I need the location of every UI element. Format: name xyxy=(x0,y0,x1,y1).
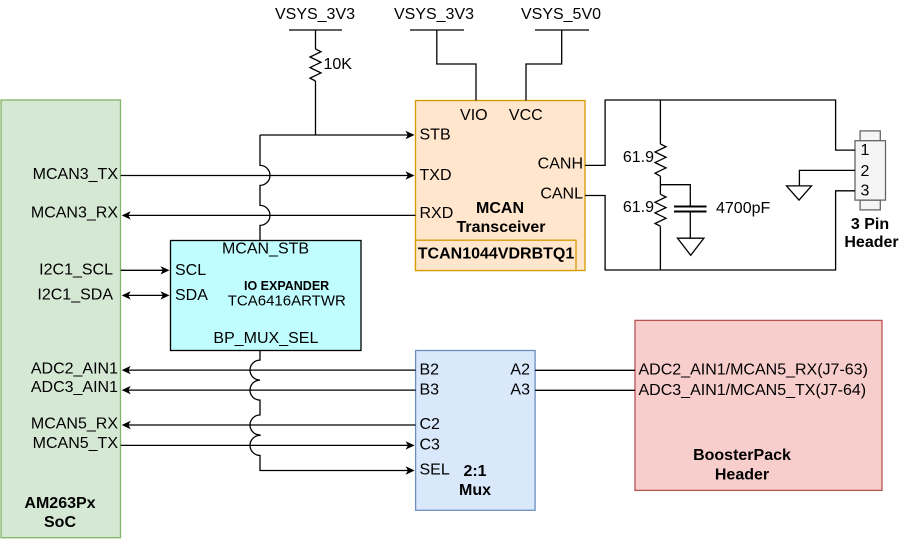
svg-text:VSYS_5V0: VSYS_5V0 xyxy=(521,6,601,23)
svg-text:ADC2_AIN1/MCAN5_RX(J7-63): ADC2_AIN1/MCAN5_RX(J7-63) xyxy=(639,362,868,379)
mux U4 2:1 xyxy=(416,351,535,511)
MCAN transceiver U1 xyxy=(416,101,586,271)
svg-text:I2C1_SDA: I2C1_SDA xyxy=(37,286,113,303)
wire MCAN5_TX to C3 xyxy=(121,441,415,449)
svg-text:BoosterPack: BoosterPack xyxy=(693,447,791,464)
svg-text:3 Pin: 3 Pin xyxy=(851,216,889,233)
wire STB net horizontal xyxy=(260,134,409,136)
svg-text:MCAN: MCAN xyxy=(476,200,524,217)
svg-text:SoC: SoC xyxy=(44,514,76,531)
svg-text:TCA6416ARTWR: TCA6416ARTWR xyxy=(228,292,346,309)
svg-text:TXD: TXD xyxy=(420,167,452,184)
power VSYS_3V3 P1 xyxy=(275,6,355,30)
wire C1 to ground xyxy=(689,212,691,239)
svg-text:MCAN5_RX: MCAN5_RX xyxy=(31,416,118,433)
wire CANH to pin 1 xyxy=(585,100,855,165)
svg-text:SCL: SCL xyxy=(175,262,206,279)
IO expander U2 TCA6416ARTWR xyxy=(171,240,362,350)
svg-text:ADC2_AIN1: ADC2_AIN1 xyxy=(31,361,118,378)
svg-text:STB: STB xyxy=(420,127,451,144)
svg-text:MCAN5_TX: MCAN5_TX xyxy=(33,435,119,452)
svg-text:ADC3_AIN1/MCAN5_TX(J7-64): ADC3_AIN1/MCAN5_TX(J7-64) xyxy=(639,382,867,399)
wire pin 2 to ground xyxy=(799,170,855,186)
svg-text:B3: B3 xyxy=(420,381,440,398)
BoosterPack header J7 xyxy=(635,320,882,490)
wire A2 to BoosterPack xyxy=(535,369,635,371)
wire CANL to pin 3 xyxy=(585,191,855,270)
wire MCAN3_TX to TXD xyxy=(121,171,415,179)
wire R2 to R3 xyxy=(659,176,661,194)
svg-text:Transceiver: Transceiver xyxy=(457,219,546,236)
svg-text:CANH: CANH xyxy=(538,156,583,173)
svg-text:AM263Px: AM263Px xyxy=(24,495,95,512)
svg-text:4700pF: 4700pF xyxy=(716,200,770,217)
svg-text:A2: A2 xyxy=(510,361,530,378)
wire I2C1_SCL to SCL xyxy=(121,266,170,274)
svg-text:C3: C3 xyxy=(420,436,441,453)
wire B3 to ADC3_AIN1 xyxy=(122,386,416,394)
svg-text:VCC: VCC xyxy=(509,107,543,124)
svg-text:2:1: 2:1 xyxy=(463,463,486,480)
svg-text:2: 2 xyxy=(861,163,870,180)
wire I2C1_SDA to SDA bidirectional xyxy=(122,291,170,299)
wire R3 to bottom rail xyxy=(659,226,661,270)
svg-text:Header: Header xyxy=(715,467,769,484)
resistor R3 61.9 xyxy=(623,194,666,226)
svg-text:Header: Header xyxy=(844,234,898,251)
SoC block U3 AM263Px xyxy=(1,100,121,538)
svg-text:RXD: RXD xyxy=(420,205,454,222)
connector J1 label xyxy=(844,216,898,251)
svg-text:B2: B2 xyxy=(420,361,440,378)
svg-text:SDA: SDA xyxy=(175,287,208,304)
capacitor C1 4700pF xyxy=(674,200,770,217)
svg-text:MCAN3_RX: MCAN3_RX xyxy=(31,204,118,221)
ground GND1 xyxy=(678,238,704,255)
resistor R1 10K xyxy=(310,49,352,81)
svg-text:IO EXPANDER: IO EXPANDER xyxy=(244,279,329,293)
svg-text:C2: C2 xyxy=(420,416,441,433)
wire split node to capacitor C1 xyxy=(660,185,690,207)
svg-text:CANL: CANL xyxy=(540,185,583,202)
wire P3 to VCC xyxy=(526,30,562,101)
wire A3 to BoosterPack xyxy=(535,389,635,391)
wire P1 to R1 xyxy=(315,30,317,49)
svg-text:MCAN3_TX: MCAN3_TX xyxy=(33,166,119,183)
svg-text:MCAN_STB: MCAN_STB xyxy=(222,240,309,257)
svg-text:61.9: 61.9 xyxy=(623,199,654,216)
svg-text:I2C1_SCL: I2C1_SCL xyxy=(39,262,113,279)
svg-text:Mux: Mux xyxy=(459,482,491,499)
svg-text:A3: A3 xyxy=(510,381,530,398)
svg-text:1: 1 xyxy=(861,142,870,159)
resistor R2 61.9 xyxy=(623,144,666,176)
svg-text:TCAN1044VDRBTQ1: TCAN1044VDRBTQ1 xyxy=(418,246,575,263)
svg-text:61.9: 61.9 xyxy=(623,149,654,166)
svg-text:VSYS_3V3: VSYS_3V3 xyxy=(394,6,474,23)
wire B2 to ADC2_AIN1 xyxy=(122,366,416,374)
wire BP_MUX_SEL to SEL with hops xyxy=(250,351,409,471)
svg-text:SEL: SEL xyxy=(420,462,450,479)
ground GND2 xyxy=(787,186,812,200)
svg-text:BP_MUX_SEL: BP_MUX_SEL xyxy=(213,330,318,347)
wire RXD to MCAN3_RX xyxy=(122,211,416,219)
svg-text:VIO: VIO xyxy=(460,107,488,124)
wire C2 to MCAN5_RX xyxy=(122,421,416,429)
power VSYS_5V0 P3 xyxy=(521,6,601,30)
power VSYS_3V3 P2 xyxy=(394,6,474,30)
svg-text:3: 3 xyxy=(861,183,870,200)
wire top rail to R2 xyxy=(659,100,661,144)
svg-text:VSYS_3V3: VSYS_3V3 xyxy=(275,6,355,23)
wire R1 to STB net xyxy=(315,81,317,135)
svg-text:ADC3_AIN1: ADC3_AIN1 xyxy=(31,379,118,396)
wire STB net vertical to MCAN_STB with hops xyxy=(260,135,270,241)
svg-text:10K: 10K xyxy=(324,56,353,73)
connector J1 3 pin header xyxy=(855,131,886,210)
wire P2 to VIO xyxy=(437,30,476,101)
